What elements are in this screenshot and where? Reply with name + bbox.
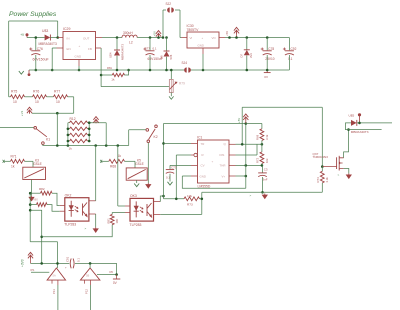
wire r8 rail — [29, 193, 31, 242]
pin OK3 in- — [125, 212, 130, 214]
ground chevron C73 — [168, 182, 173, 185]
wire Vplus lead — [236, 175, 246, 177]
wire r80 link — [30, 210, 42, 263]
junction gate — [321, 165, 324, 168]
svg-text:3nF: 3nF — [263, 178, 268, 182]
wire OK3 top feed — [117, 146, 119, 207]
svg-text:0.1: 0.1 — [288, 57, 293, 61]
junction 5v a — [228, 36, 231, 39]
wire diode feed — [346, 123, 352, 130]
resistor R71 — [11, 159, 25, 163]
wire TR lead — [164, 142, 192, 144]
wire CV lead — [170, 164, 191, 166]
svg-text:GSLE: GSLE — [135, 162, 144, 166]
svg-text:3V3: 3V3 — [249, 53, 253, 58]
ground chevron K5 — [134, 184, 139, 187]
wire pot top — [170, 70, 172, 80]
wire R69 bot — [261, 141, 263, 145]
wire C73 down — [169, 174, 171, 182]
svg-text:V+: V+ — [222, 174, 226, 178]
ground chevron pot — [169, 96, 174, 99]
wire R91 down — [42, 225, 113, 237]
junction rail e — [117, 144, 120, 147]
svg-text:R74: R74 — [316, 177, 320, 183]
wire op1 bottom — [57, 285, 59, 310]
pin marker U$5 — [358, 113, 361, 116]
net stub R68 — [100, 160, 102, 163]
pin OK2 e — [89, 213, 96, 215]
wire 3v3 stem — [30, 259, 32, 264]
junction R69 bot — [261, 143, 264, 146]
svg-text:MBRA340T3: MBRA340T3 — [121, 44, 125, 60]
junction rail b — [67, 144, 70, 147]
junction C81 gnd — [149, 69, 152, 72]
supply +5V arrow out — [234, 27, 239, 34]
svg-text:GND: GND — [198, 43, 204, 47]
resistor R80 — [37, 203, 48, 207]
pin OK2 in- — [60, 210, 65, 212]
wire R73 bend — [200, 198, 202, 200]
svg-text:P12: P12 — [85, 289, 89, 294]
svg-text:10: 10 — [35, 100, 39, 104]
junction zener2 gnd — [246, 69, 249, 72]
svg-text:R71: R71 — [11, 154, 17, 158]
wire source — [344, 169, 349, 174]
junction r80b — [29, 209, 32, 212]
svg-text:+: + — [79, 44, 81, 48]
wire +V frame left — [8, 21, 10, 97]
wire R80 lead — [30, 204, 36, 206]
junction ladder top — [88, 121, 91, 124]
svg-text:5B: 5B — [86, 274, 89, 278]
junction C78 top — [266, 36, 269, 39]
wire gate riser — [321, 107, 323, 166]
pin op2 bottom — [90, 280, 92, 285]
wire zener1 gnd — [166, 57, 168, 70]
wire R81 bend — [124, 70, 128, 75]
junction rail a — [56, 144, 59, 147]
wire R net left — [175, 155, 177, 199]
svg-text:R81: R81 — [107, 66, 112, 70]
svg-text:+5V: +5V — [237, 118, 241, 123]
wire ladder top — [89, 122, 106, 124]
ground chevron — [19, 71, 24, 74]
pin IC29 FB — [96, 47, 102, 49]
svg-text:C91: C91 — [65, 256, 69, 262]
wire diode cathode — [50, 37, 57, 39]
wire U$4 gnd — [116, 56, 118, 70]
pin IC1 Vplus — [229, 175, 236, 177]
svg-text:R82: R82 — [39, 187, 45, 191]
junction EN gnd — [51, 69, 54, 72]
pin op1 bottom — [57, 280, 59, 285]
svg-text:10k: 10k — [265, 158, 269, 163]
wire U$4 drop — [116, 38, 118, 51]
wire THR lead — [236, 164, 263, 166]
wire DIS lead — [236, 154, 258, 156]
svg-text:>: > — [85, 227, 87, 231]
junction C76 gnd — [35, 69, 38, 72]
junction rail d — [105, 144, 108, 147]
svg-text:D5: D5 — [110, 270, 114, 274]
wire ladder drop — [105, 123, 107, 146]
svg-text:IC1: IC1 — [197, 136, 202, 140]
wire C76 top — [35, 38, 37, 51]
resistor R72 — [260, 152, 264, 164]
wire row lead2 — [25, 96, 33, 98]
zener D7 — [244, 49, 250, 51]
pin IC29 GND — [78, 60, 80, 67]
svg-text:+5V: +5V — [152, 31, 156, 36]
wire K2 down — [147, 143, 149, 183]
junction THR — [245, 164, 248, 167]
svg-text:GND: GND — [75, 54, 83, 58]
svg-text:1k: 1k — [11, 165, 15, 169]
op-amp U5B — [80, 268, 100, 280]
wire op1 input — [31, 271, 49, 273]
svg-text:>: > — [250, 194, 252, 198]
zener D6 — [164, 50, 170, 52]
wire OK3 collector — [160, 196, 163, 202]
svg-text:R75: R75 — [11, 90, 17, 94]
svg-text:25V10: 25V10 — [265, 57, 274, 61]
wire K5 down — [136, 180, 138, 183]
junction op2 out — [115, 273, 118, 276]
svg-text:60V150uF: 60V150uF — [33, 58, 49, 62]
svg-text:VI: VI — [190, 36, 193, 40]
svg-text:LM555D: LM555D — [198, 184, 211, 188]
junction diode-out — [56, 36, 59, 39]
wire out to L2 — [102, 37, 122, 39]
junction IC29 gnd — [78, 69, 81, 72]
wire R82 bend — [52, 193, 60, 205]
wire drain — [344, 130, 349, 158]
resistor R69 — [260, 129, 264, 141]
ground arrow K3 — [29, 196, 34, 201]
capacitor C91 — [70, 259, 71, 269]
svg-text:R73: R73 — [187, 202, 193, 206]
wire pot bottom — [170, 93, 172, 97]
wire R74 bot — [321, 183, 323, 192]
wire plus5 riser — [245, 124, 247, 189]
wire diode input — [27, 37, 45, 39]
wire R80 bend — [47, 205, 60, 212]
svg-text:D7: D7 — [240, 54, 244, 58]
resistor R74 — [320, 171, 324, 183]
pin OK3 c — [154, 201, 161, 203]
svg-text:R77: R77 — [54, 90, 60, 94]
wire OK3 in- lead — [112, 212, 125, 214]
wire op2 output — [97, 274, 117, 276]
svg-text:D6: D6 — [159, 55, 163, 59]
svg-text:IC29: IC29 — [63, 27, 70, 31]
wire diode out — [357, 122, 392, 124]
ground arrow K2 — [146, 183, 151, 188]
svg-text:U$4: U$4 — [109, 52, 113, 58]
wire Q net — [236, 143, 262, 145]
relay K5 — [126, 168, 147, 180]
junction diode out — [358, 122, 361, 125]
junction 3v3 a — [40, 262, 43, 265]
wire EN down — [52, 47, 56, 49]
junction zener1 top — [165, 36, 168, 39]
ground rail — [29, 69, 184, 71]
wire row across — [57, 112, 73, 114]
resistor R91 — [110, 214, 114, 224]
svg-text:Power Supplies: Power Supplies — [9, 11, 57, 18]
switch K2 — [146, 129, 149, 132]
optocoupler OK3 box — [130, 198, 154, 221]
resistor R73 — [184, 197, 200, 201]
trimmer R79 — [169, 80, 173, 93]
svg-text:OK2: OK2 — [65, 194, 72, 198]
resistor R68 — [109, 159, 125, 163]
svg-text:CV: CV — [201, 164, 205, 168]
pin IC1 TR — [191, 142, 198, 144]
wire OK3 top lead — [118, 205, 125, 207]
svg-text:+V1: +V1 — [20, 110, 24, 116]
junction U$4 top — [116, 36, 119, 39]
junction plus5 — [245, 122, 248, 125]
junction Q riser — [241, 143, 244, 146]
svg-text:GND: GND — [200, 174, 206, 178]
svg-text:K1: K1 — [46, 138, 50, 142]
svg-text:IP1: IP1 — [31, 268, 35, 272]
svg-text:0.1: 0.1 — [153, 46, 157, 50]
junction C81 top — [149, 36, 152, 39]
wire C78 gnd — [266, 55, 268, 70]
svg-text:1k: 1k — [69, 146, 73, 150]
wire R74 top — [321, 167, 323, 172]
svg-text:TLP283: TLP283 — [130, 223, 142, 227]
pin op1 vminus — [51, 280, 53, 284]
svg-text:C3: C3 — [264, 167, 268, 171]
wire SJ2 right — [175, 9, 180, 11]
wire K2 feed — [129, 129, 146, 131]
wire OK3 emitter up — [201, 192, 203, 214]
svg-text:0V: 0V — [264, 75, 268, 79]
svg-text:THR: THR — [220, 164, 226, 168]
svg-text:10k: 10k — [187, 194, 192, 198]
svg-text:5V6: 5V6 — [169, 54, 173, 59]
junction Rnet bottom — [175, 198, 178, 201]
junction SJ2 tap — [162, 36, 165, 39]
svg-text:GSLE: GSLE — [33, 162, 42, 166]
svg-text:180: 180 — [115, 218, 119, 223]
wire C78 drop — [266, 38, 268, 51]
op-amp U5A — [47, 268, 66, 280]
pin IC1 R — [191, 154, 194, 156]
resistor R75 — [11, 95, 25, 99]
switch K1 — [34, 127, 37, 130]
junction mid drop — [56, 112, 59, 115]
resistor R81 — [112, 73, 124, 76]
svg-text:C77: C77 — [145, 46, 151, 50]
wire 3v3 line left — [31, 262, 70, 264]
relay K3 — [23, 167, 46, 179]
optocoupler OK2 box — [65, 198, 89, 221]
diode U$3 — [45, 35, 51, 41]
svg-text:L2: L2 — [129, 41, 133, 45]
junction zener1 gnd — [165, 69, 168, 72]
svg-text:U$3: U$3 — [42, 29, 48, 33]
wire R69 top bend — [246, 123, 262, 125]
capacitor C76 — [31, 50, 40, 52]
wire frame right drop — [57, 21, 59, 38]
svg-text:7N60C4N3: 7N60C4N3 — [313, 155, 329, 159]
wire right border top — [288, 38, 290, 51]
junction +5V mid — [157, 36, 160, 39]
node +V input pin — [26, 33, 29, 36]
svg-text:+: + — [202, 36, 204, 40]
junction r82 — [29, 192, 32, 195]
wire R71 to K3 — [25, 160, 34, 162]
OK2 internals — [69, 201, 74, 217]
IC29 box — [63, 32, 96, 60]
wire 3v3 drop right — [116, 263, 118, 274]
wire OK2 emitter down — [95, 214, 97, 227]
pin IC1 GND — [191, 175, 198, 177]
wire R lead — [176, 154, 191, 156]
wire R82 lead — [30, 192, 40, 194]
junction TR — [162, 142, 165, 145]
pin IC30 GND — [202, 48, 204, 54]
IC1 box — [198, 140, 230, 183]
wire K3 down — [31, 180, 33, 196]
junction C78 gnd — [266, 69, 269, 72]
wire op2 out riser — [89, 263, 91, 268]
wire R72 top — [261, 144, 263, 152]
pin IC1 Q — [229, 143, 236, 145]
svg-text:R12: R12 — [70, 117, 76, 121]
wire K1 feed — [0, 127, 34, 129]
svg-text:+: + — [212, 160, 214, 164]
wire arrow to junction — [32, 112, 57, 114]
wire op1 out riser — [57, 242, 59, 268]
pin IC30 VI — [182, 37, 188, 39]
svg-text:R69: R69 — [256, 134, 260, 140]
junction U$4 gnd — [116, 69, 119, 72]
svg-text:+3V3: +3V3 — [21, 259, 25, 267]
pin IC30 VO — [219, 37, 225, 39]
junction 3v3 b — [89, 262, 92, 265]
wire op2 bottom — [90, 285, 92, 310]
ground bar 0V — [116, 275, 118, 280]
ground arrow OK2 — [93, 227, 98, 232]
wire C76 bottom — [35, 55, 37, 70]
svg-text:C73: C73 — [171, 165, 177, 169]
svg-text:3.3k: 3.3k — [325, 177, 329, 183]
junction pot rail — [170, 69, 173, 72]
svg-text:1k: 1k — [111, 77, 115, 81]
wire FB to pot — [101, 86, 169, 88]
svg-text:R80: R80 — [33, 197, 39, 201]
wire zener1 drop — [166, 38, 168, 52]
wire C3 down — [262, 177, 264, 192]
wire row lead1 — [9, 96, 11, 98]
supply +5V arrow 555 — [243, 114, 248, 121]
junction R73 — [201, 198, 204, 201]
wire ladder right rail — [88, 123, 90, 141]
wire ladder left rail — [67, 123, 69, 146]
svg-text:K2: K2 — [154, 135, 158, 139]
wire zener2 gnd — [246, 56, 248, 71]
wire K1 down — [42, 144, 44, 145]
svg-text:MBRA340T3: MBRA340T3 — [351, 130, 369, 134]
wire common rail — [43, 145, 129, 147]
net stub R71 — [3, 160, 5, 163]
wire row lead3 — [47, 96, 54, 98]
wire K2 up — [128, 130, 130, 146]
svg-text:TLP283: TLP283 — [64, 222, 76, 226]
svg-text:C76: C76 — [37, 47, 43, 51]
junction C76 vin — [35, 36, 38, 39]
junction OK3c — [162, 195, 165, 198]
resistor R76 — [33, 95, 47, 99]
diode U$5 — [351, 120, 357, 126]
pin OK2 in+ — [60, 205, 65, 207]
svg-text:OK3: OK3 — [130, 194, 137, 198]
ground arrow Q37 — [346, 173, 351, 178]
junction C3 top — [261, 164, 264, 167]
pin OK3 in+ — [125, 205, 130, 207]
wire top long — [242, 106, 322, 108]
pin op2 vminus — [84, 280, 86, 284]
svg-text:TR: TR — [201, 142, 205, 146]
svg-text:SJ2: SJ2 — [166, 2, 172, 6]
wire drop to rail — [56, 113, 58, 145]
capacitor C81 — [146, 50, 155, 52]
wire TR drop — [163, 124, 165, 199]
junction rail IC30gnd — [202, 69, 205, 72]
svg-text:EN: EN — [67, 47, 71, 51]
wire OK3 emitter — [160, 213, 202, 215]
transistor Q37 — [336, 157, 338, 169]
svg-text:R72: R72 — [256, 157, 260, 163]
wire GND wrap — [182, 175, 191, 177]
supply +5V arrow mid — [156, 31, 161, 38]
svg-text:+5V: +5V — [225, 31, 229, 36]
junction Vplus — [245, 175, 248, 178]
supply +3V3 arrow — [28, 252, 33, 259]
junction drain top — [347, 128, 350, 131]
pin IC29 EN — [57, 47, 64, 49]
pin OK2 c — [89, 200, 96, 202]
wire L2 out — [137, 37, 163, 39]
capacitor C78 — [263, 50, 272, 52]
IC30 box — [187, 32, 219, 48]
pin IC1 THR — [229, 164, 236, 166]
svg-text:MBRA340T3: MBRA340T3 — [39, 42, 57, 46]
resistor R82 — [41, 191, 53, 195]
svg-text:300uH: 300uH — [123, 31, 133, 35]
pin IC1 CV — [191, 164, 198, 166]
wire row drop — [73, 97, 75, 113]
svg-text:U$5: U$5 — [349, 113, 355, 117]
svg-text:>: > — [338, 173, 340, 177]
svg-text:C78: C78 — [268, 47, 274, 51]
wire +V frame top — [9, 20, 58, 22]
svg-text:R91: R91 — [106, 218, 110, 224]
wire R81 lead — [101, 74, 112, 76]
junction C3 gnd — [261, 191, 264, 194]
svg-text:P11: P11 — [52, 289, 56, 294]
svg-text:DIS: DIS — [220, 153, 225, 157]
DGND symbol — [266, 70, 268, 73]
svg-text:5A: 5A — [53, 274, 56, 278]
wire gnd long — [202, 191, 322, 193]
pin IC1 DIS — [229, 154, 236, 156]
